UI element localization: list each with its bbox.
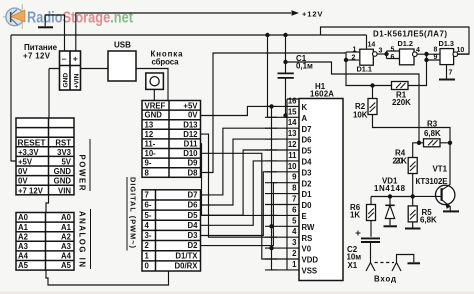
resistor R2 <box>372 86 374 99</box>
svg-text:14: 14 <box>288 118 297 127</box>
svg-text:9: 9 <box>434 54 438 61</box>
svg-text:D1-К561ЛЕ5(ЛА7): D1-К561ЛЕ5(ЛА7) <box>373 30 447 39</box>
svg-text:220K: 220K <box>393 157 408 166</box>
svg-text:14: 14 <box>368 42 376 49</box>
POWER header table <box>16 118 74 195</box>
svg-text:D7: D7 <box>302 125 312 134</box>
board outline mid segment <box>46 195 49 213</box>
board outline left edge <box>11 35 16 161</box>
svg-text:КТ3102Е: КТ3102Е <box>416 177 448 186</box>
svg-text:VIN: VIN <box>58 186 71 195</box>
svg-text:A4: A4 <box>18 252 29 261</box>
svg-text:15: 15 <box>288 107 297 116</box>
ground (power minus terminal) <box>45 15 64 51</box>
svg-text:0V: 0V <box>18 167 28 176</box>
svg-text:6,8K: 6,8K <box>420 216 437 225</box>
svg-text:D0/RX: D0/RX <box>175 262 199 271</box>
svg-text:5: 5 <box>292 216 297 225</box>
svg-text:4: 4 <box>145 221 150 230</box>
svg-text:5V: 5V <box>61 158 71 167</box>
svg-text:5-: 5- <box>145 211 152 220</box>
board outline top at power block <box>49 69 60 119</box>
USB connector box <box>108 51 136 81</box>
svg-text:6: 6 <box>391 54 395 61</box>
svg-text:D5: D5 <box>188 211 199 220</box>
svg-text:Вход: Вход <box>374 275 396 284</box>
svg-text:D8: D8 <box>188 168 199 177</box>
svg-text:GND: GND <box>54 167 72 176</box>
svg-text:D4: D4 <box>302 158 313 167</box>
svg-text:D2: D2 <box>302 179 313 188</box>
wire digital 11 to LCD E <box>201 144 278 216</box>
svg-text:D10: D10 <box>183 149 198 158</box>
svg-text:USB: USB <box>114 41 131 50</box>
wire C1 to R3/R4 node <box>286 62 420 143</box>
svg-text:+5V: +5V <box>18 158 33 167</box>
svg-text:X1: X1 <box>348 261 358 270</box>
terminal block X power <box>60 51 81 90</box>
svg-text:220K: 220K <box>392 98 411 107</box>
svg-text:RadioStorage.net: RadioStorage.net <box>27 10 133 27</box>
svg-text:GND: GND <box>62 73 69 88</box>
svg-text:11-: 11- <box>145 140 156 149</box>
svg-text:A5: A5 <box>61 261 72 270</box>
svg-text:ANALOG IN: ANALOG IN <box>78 211 87 267</box>
DIGITAL header lower block <box>142 190 201 271</box>
ANALOG IN header table <box>16 213 74 271</box>
svg-text:11: 11 <box>288 151 297 160</box>
DIGITAL lower labels <box>145 191 199 271</box>
svg-text:16: 16 <box>288 96 297 105</box>
svg-text:0V: 0V <box>188 111 198 120</box>
DIGITAL header upper block <box>142 101 201 178</box>
svg-text:1: 1 <box>292 260 297 269</box>
gate pin numbers <box>352 42 465 77</box>
svg-text:10-: 10- <box>145 149 157 158</box>
svg-text:K: K <box>302 103 308 112</box>
svg-text:3V3: 3V3 <box>57 148 72 157</box>
svg-text:D3: D3 <box>188 231 199 240</box>
connector X1 <box>366 263 375 272</box>
svg-text:сброса: сброса <box>152 58 180 67</box>
polarity plus of C2 <box>356 231 361 236</box>
svg-text:A5: A5 <box>18 261 29 270</box>
diode VD1 <box>389 197 391 206</box>
svg-text:10: 10 <box>288 162 297 171</box>
svg-text:2: 2 <box>292 249 297 258</box>
svg-text:12: 12 <box>288 140 297 149</box>
D1.2 input tie <box>387 51 400 59</box>
resistor R5 <box>412 196 414 206</box>
wire 0V to LCD K <box>201 106 278 115</box>
resistor R3 <box>419 142 424 144</box>
gate designators <box>357 39 454 73</box>
svg-text:6,8K: 6,8K <box>424 129 441 138</box>
svg-text:D3: D3 <box>302 168 313 177</box>
svg-text:1: 1 <box>145 251 150 260</box>
pin 7 ground of D1 <box>446 65 448 79</box>
svg-text:1: 1 <box>353 47 357 54</box>
C1 riser from rail <box>285 35 287 73</box>
svg-text:12: 12 <box>145 130 154 139</box>
svg-text:D1.3: D1.3 <box>439 39 454 48</box>
svg-text:1602A: 1602A <box>310 90 334 99</box>
svg-text:RESET: RESET <box>18 138 46 147</box>
svg-text:D7: D7 <box>188 191 198 200</box>
svg-text:2: 2 <box>145 241 150 250</box>
LCD pin numbers <box>288 96 297 269</box>
ANALOG header labels <box>18 213 72 270</box>
svg-text:8: 8 <box>145 168 150 177</box>
LCD H1 1602A box <box>299 99 343 281</box>
resistor R4 <box>413 143 419 158</box>
+12V feed wire <box>76 13 291 51</box>
svg-text:8: 8 <box>434 47 438 54</box>
svg-text:7: 7 <box>449 70 453 77</box>
svg-text:E: E <box>302 212 307 221</box>
svg-text:A3: A3 <box>18 242 29 251</box>
svg-text:13: 13 <box>288 129 297 138</box>
svg-text:6-: 6- <box>145 201 152 210</box>
svg-text:A0: A0 <box>18 213 29 222</box>
svg-text:+12V: +12V <box>302 10 323 19</box>
svg-text:+7 12V: +7 12V <box>23 52 51 61</box>
svg-text:D5: D5 <box>302 147 313 156</box>
svg-text:A0: A0 <box>61 213 72 222</box>
svg-text:3: 3 <box>292 238 297 247</box>
wire +5V rail to LCD A <box>268 35 278 117</box>
svg-text:10K: 10K <box>353 111 368 120</box>
capacitor C2 <box>361 238 380 242</box>
svg-text:+3,3V: +3,3V <box>18 148 39 157</box>
svg-text:D6: D6 <box>188 201 199 210</box>
svg-text:7: 7 <box>145 191 149 200</box>
svg-text:0,1м: 0,1м <box>296 62 313 71</box>
staircase wires digital D7..D2 to LCD D7..D2 <box>201 128 278 195</box>
board outline bottom <box>46 270 169 285</box>
svg-text:R3: R3 <box>427 120 438 129</box>
svg-text:–: – <box>62 54 67 64</box>
svg-text:D1: D1 <box>302 190 313 199</box>
svg-text:3-: 3- <box>145 231 152 240</box>
svg-text:6: 6 <box>292 205 297 214</box>
reset button <box>146 73 164 89</box>
svg-text:D9: D9 <box>188 159 199 168</box>
svg-text:+VIN: +VIN <box>73 73 80 88</box>
svg-text:A4: A4 <box>61 252 72 261</box>
svg-text:D0: D0 <box>302 201 313 210</box>
POWER header labels <box>18 138 72 195</box>
svg-text:1K: 1K <box>350 211 360 220</box>
wire digital 12 to LCD RS <box>201 134 278 237</box>
transistor VT1 KT3102E <box>436 185 455 204</box>
svg-text:A2: A2 <box>18 232 29 241</box>
svg-text:RST: RST <box>55 138 71 147</box>
wire digital 10 to LCD VDD <box>201 153 278 259</box>
svg-text:V0: V0 <box>302 245 312 254</box>
pin14 lead <box>366 35 368 49</box>
svg-text:RW: RW <box>302 223 315 232</box>
wire digital 8 to oscillator input <box>201 53 347 173</box>
wire button to header <box>153 89 155 100</box>
svg-text:9-: 9- <box>145 159 152 168</box>
svg-text:2: 2 <box>352 55 356 62</box>
svg-text:GND: GND <box>145 111 163 120</box>
svg-text:D13: D13 <box>183 120 198 129</box>
svg-text:A3: A3 <box>61 242 72 251</box>
wire USB to digital header <box>136 69 168 101</box>
resistor R1 <box>392 82 409 90</box>
svg-text:GND: GND <box>54 177 72 186</box>
svg-text:13: 13 <box>145 120 154 129</box>
wire terminal block to USB <box>81 68 109 70</box>
svg-text:7: 7 <box>292 195 296 204</box>
svg-text:D4: D4 <box>188 221 199 230</box>
svg-text:+5V: +5V <box>183 101 198 110</box>
svg-text:D1.2: D1.2 <box>398 39 413 48</box>
svg-text:D12: D12 <box>183 130 198 139</box>
svg-text:3: 3 <box>379 48 383 55</box>
gate D1.3 <box>440 49 454 65</box>
ground tie riser K-RW-V0-VSS <box>272 106 278 270</box>
svg-text:0: 0 <box>145 262 150 271</box>
svg-text:VREF: VREF <box>145 101 166 110</box>
svg-text:VT1: VT1 <box>433 165 448 174</box>
svg-text:1N4148: 1N4148 <box>374 184 406 193</box>
svg-text:VSS: VSS <box>302 267 318 276</box>
base node wire <box>371 196 413 198</box>
D1.3 input tie <box>427 54 441 60</box>
svg-text:D6: D6 <box>302 136 313 145</box>
svg-text:8: 8 <box>292 184 297 193</box>
svg-text:D1.1: D1.1 <box>357 64 372 73</box>
svg-text:DIGITAL (PWM~): DIGITAL (PWM~) <box>129 177 138 249</box>
svg-text:A2: A2 <box>61 232 72 241</box>
svg-text:4: 4 <box>416 47 420 54</box>
oscillator input node vertical <box>346 52 392 86</box>
svg-text:+: + <box>73 54 78 64</box>
svg-text:9: 9 <box>292 173 297 182</box>
svg-text:RS: RS <box>302 234 313 243</box>
svg-text:A1: A1 <box>61 223 72 232</box>
svg-text:10: 10 <box>457 47 465 54</box>
logo RadioStorage.net <box>3 4 133 29</box>
wire +5V rail top (y=35) <box>11 34 367 36</box>
gate D1.2 <box>400 49 415 65</box>
svg-text:+7 12V: +7 12V <box>18 186 44 195</box>
svg-text:A1: A1 <box>18 223 29 232</box>
svg-text:5: 5 <box>391 46 395 53</box>
capacitor C1 <box>278 73 294 78</box>
svg-text:D11: D11 <box>184 140 199 149</box>
DIGITAL upper labels <box>145 101 199 177</box>
LCD pin column <box>265 99 299 270</box>
wire D1.3 output return (top right) <box>321 27 470 54</box>
LCD pin names <box>302 103 319 276</box>
svg-text:A: A <box>302 114 308 123</box>
resistor R6 <box>370 197 372 205</box>
gate D1.1 <box>360 49 374 65</box>
svg-text:D1/TX: D1/TX <box>175 251 198 260</box>
svg-text:VDD: VDD <box>302 256 319 265</box>
svg-text:0V: 0V <box>18 177 28 186</box>
svg-text:D2: D2 <box>188 241 199 250</box>
svg-text:4: 4 <box>292 227 297 236</box>
